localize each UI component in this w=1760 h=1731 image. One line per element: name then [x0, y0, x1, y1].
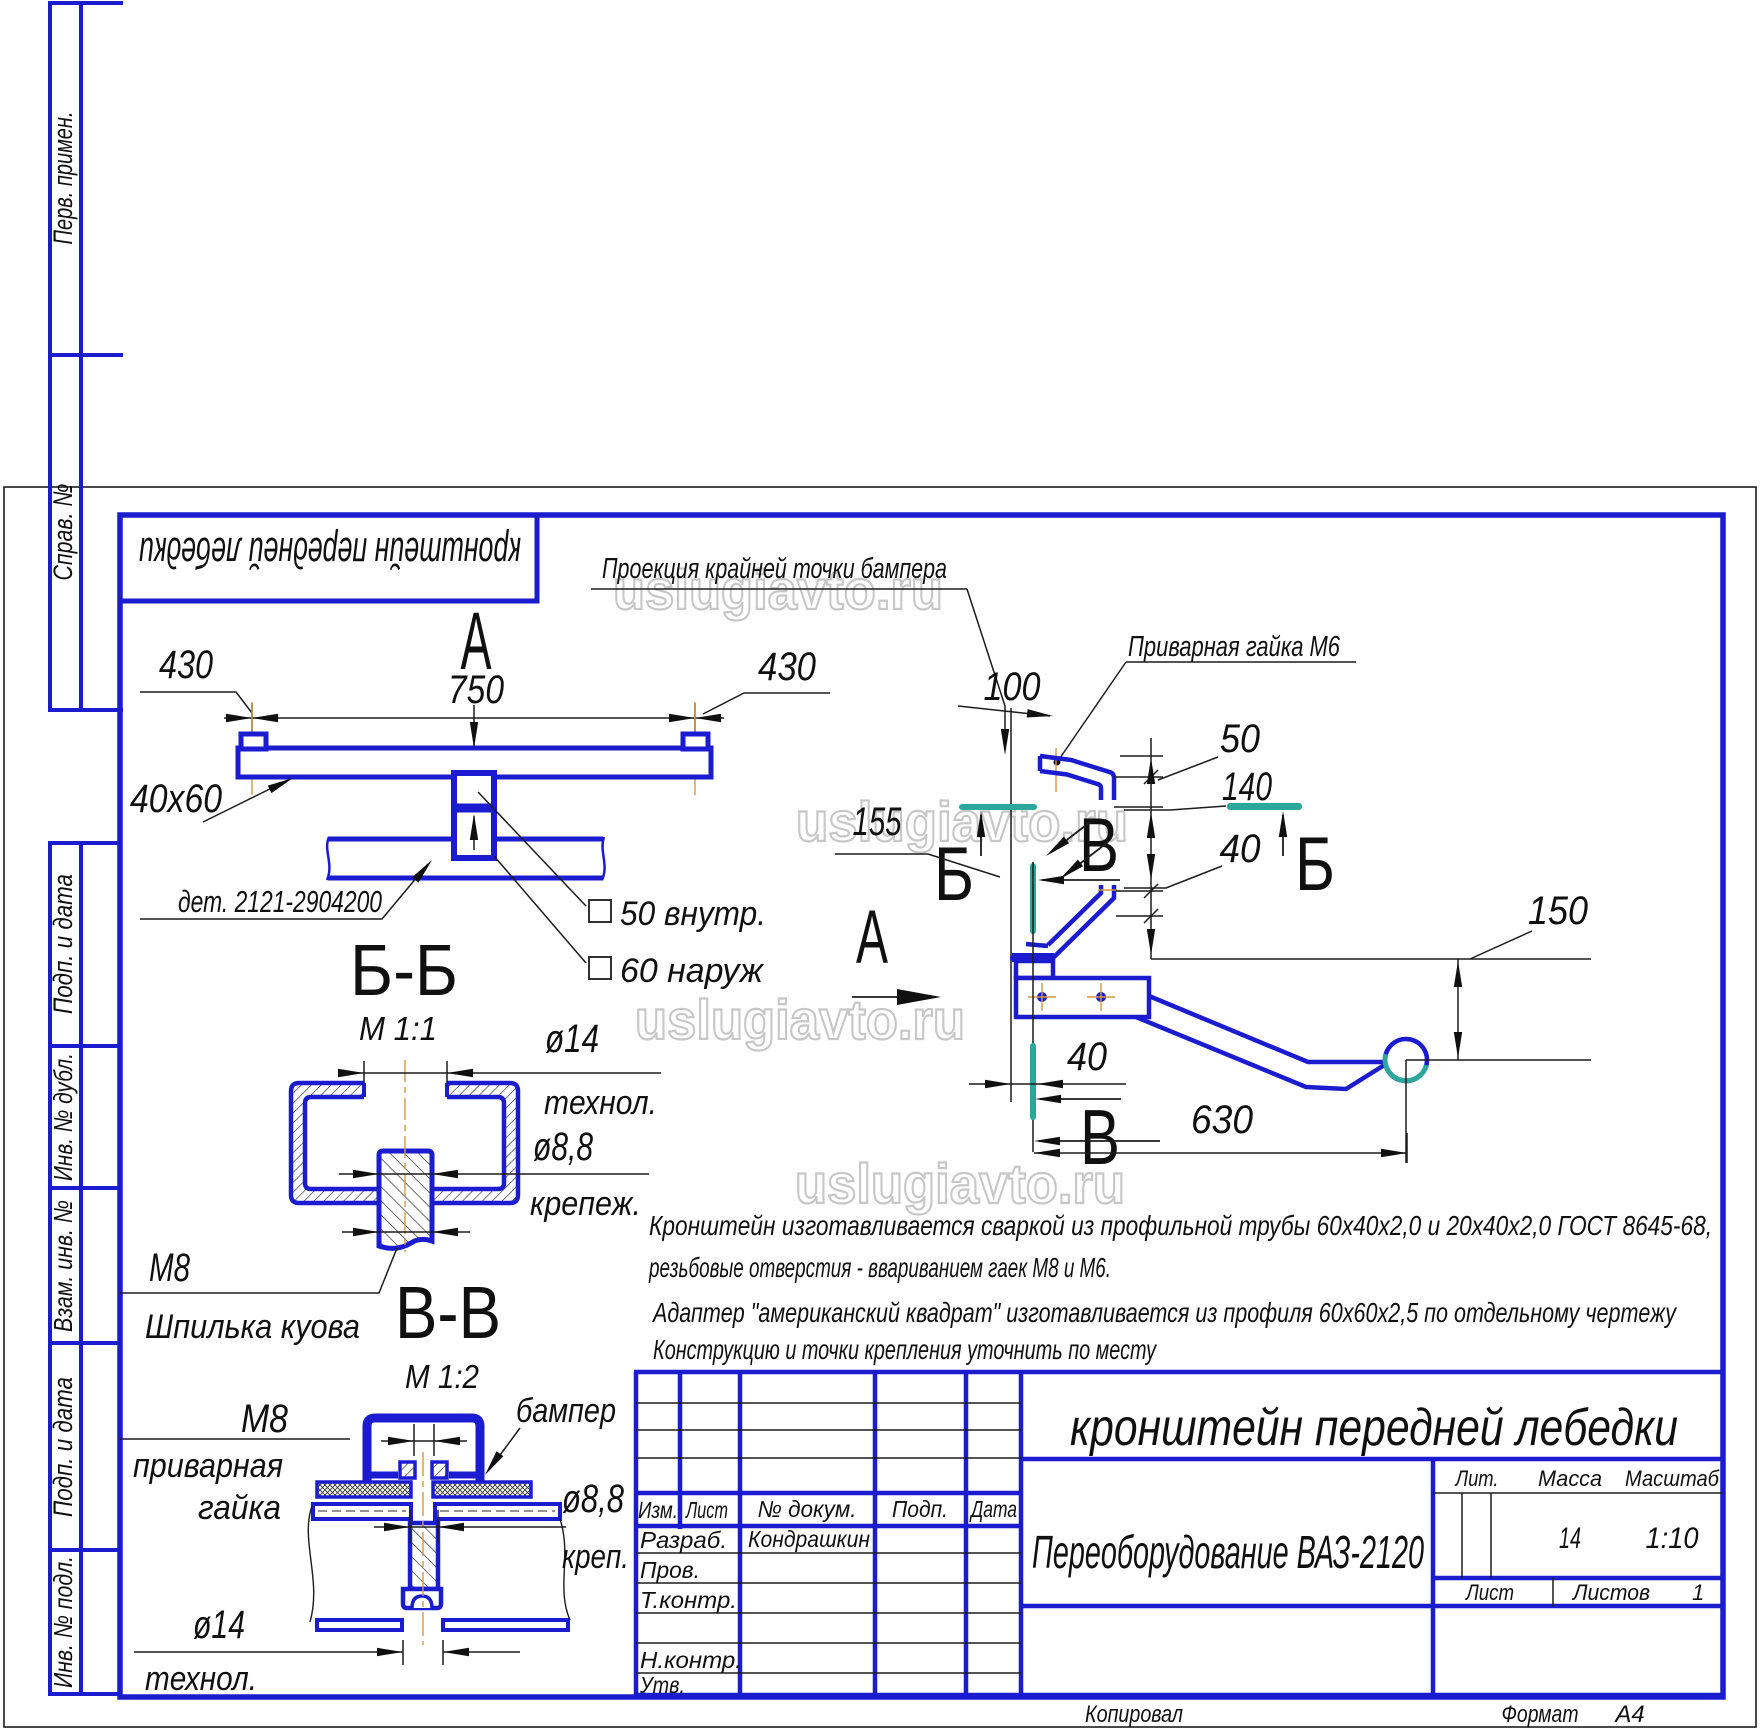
svg-text:Переоборудование ВАЗ-2120: Переоборудование ВАЗ-2120 [1032, 1526, 1424, 1578]
channel top gap [366, 1079, 445, 1100]
section line Б right (teal) [1230, 804, 1299, 810]
svg-text:Конструкцию и точки крепления: Конструкцию и точки крепления уточнить п… [653, 1334, 1157, 1365]
svg-text:Изм.: Изм. [638, 1497, 678, 1523]
break lines В-В [308, 1506, 570, 1622]
svg-text:М 1:2: М 1:2 [405, 1358, 479, 1395]
title block outline verticals [634, 1372, 639, 1697]
svg-text:Лит.: Лит. [1454, 1466, 1499, 1491]
svg-text:Инв. № дубл.: Инв. № дубл. [48, 1053, 78, 1181]
svg-text:А4: А4 [1613, 1701, 1644, 1728]
svg-text:Лист: Лист [1464, 1580, 1514, 1605]
teal arc under ring [1385, 1054, 1426, 1080]
svg-text:430: 430 [159, 643, 213, 687]
lower arrows [342, 1231, 470, 1233]
svg-text:40х60: 40х60 [130, 777, 222, 821]
dim ø14 (2) [134, 1640, 520, 1665]
svg-text:Шпилька куова: Шпилька куова [145, 1308, 360, 1346]
dim ø14 [339, 1061, 661, 1083]
svg-text:40: 40 [1220, 827, 1261, 871]
svg-text:М 1:1: М 1:1 [359, 1010, 437, 1047]
middle plates [313, 1504, 560, 1519]
dim ø8,8 (2) [374, 1510, 566, 1543]
svg-text:М8: М8 [241, 1397, 289, 1441]
extension line x1033 [1032, 862, 1034, 1152]
center arrows [473, 705, 475, 746]
svg-text:кронштейн передней лебедки: кронштейн передней лебедки [1070, 1399, 1678, 1457]
bolt holes [1028, 983, 1115, 1011]
svg-text:Подп. и дата: Подп. и дата [48, 874, 78, 1014]
svg-text:технол.: технол. [544, 1084, 657, 1122]
svg-text:ø8,8: ø8,8 [533, 1125, 594, 1169]
svg-text:1:10: 1:10 [1646, 1522, 1699, 1555]
svg-text:ø14: ø14 [545, 1017, 599, 1061]
outer thin paper border [4, 487, 1756, 1727]
svg-text:В: В [1079, 803, 1119, 888]
svg-text:Н.контр.: Н.контр. [640, 1647, 742, 1673]
hook lower strip + bend [1010, 885, 1114, 960]
М8 dim in hat [120, 1424, 467, 1456]
svg-text:Перв. примен.: Перв. примен. [48, 112, 78, 245]
svg-text:Адаптер "американский квадрат": Адаптер "американский квадрат" изготавли… [651, 1297, 1677, 1328]
C-channel hatched walls [291, 1083, 518, 1203]
svg-text:Формат: Формат [1502, 1701, 1579, 1728]
svg-text:1: 1 [1692, 1580, 1704, 1605]
svg-text:Разраб.: Разраб. [640, 1527, 727, 1553]
svg-text:Подп.: Подп. [892, 1496, 948, 1522]
svg-text:№ докум.: № докум. [758, 1496, 857, 1522]
svg-text:Приварная гайка М6: Приварная гайка М6 [1128, 631, 1341, 663]
hook upper strip [1040, 756, 1114, 800]
svg-text:В: В [1080, 1093, 1120, 1181]
svg-text:Листов: Листов [1571, 1580, 1650, 1605]
weld nuts M8 [400, 1462, 415, 1478]
svg-text:60 наруж: 60 наруж [620, 952, 765, 990]
svg-text:дет. 2121-2904200: дет. 2121-2904200 [178, 884, 382, 919]
svg-text:140: 140 [1222, 765, 1272, 809]
svg-text:Т.контр.: Т.контр. [640, 1587, 737, 1613]
svg-text:А: А [856, 895, 888, 980]
main drawing frame (thick blue) [120, 515, 1723, 1697]
svg-text:Дата: Дата [969, 1496, 1017, 1522]
svg-text:40: 40 [1067, 1035, 1107, 1079]
svg-text:50: 50 [1220, 717, 1260, 761]
centerline В-В [422, 1452, 424, 1645]
hook foot weld blob [1012, 953, 1054, 962]
svg-text:Кондрашкин: Кондрашкин [748, 1526, 870, 1552]
svg-text:14: 14 [1559, 1522, 1581, 1555]
svg-text:ø8,8: ø8,8 [562, 1477, 625, 1521]
stud with nut [410, 1523, 438, 1589]
svg-text:М8: М8 [149, 1246, 191, 1290]
svg-text:креп.: креп. [562, 1538, 629, 1576]
svg-text:Взам. инв. №: Взам. инв. № [48, 1200, 78, 1332]
hook top tab centerline [1055, 748, 1057, 792]
svg-text:50 внутр.: 50 внутр. [620, 895, 766, 933]
bumper bar (дет. 2121-2904200) [328, 839, 603, 878]
thin inner lines of title block [636, 1403, 1723, 1673]
label 60 наруж [589, 957, 611, 979]
bottom plates [317, 1620, 568, 1630]
svg-text:Пров.: Пров. [640, 1557, 700, 1583]
dim line 750 [224, 703, 724, 736]
svg-text:Б: Б [934, 832, 974, 917]
bottom strip cells [48, 842, 120, 1695]
svg-text:технол.: технол. [145, 1660, 257, 1698]
section line Б left (teal) [962, 804, 1034, 810]
svg-text:резьбовые отверстия - ввариван: резьбовые отверстия - ввариванием гаек М… [648, 1252, 1111, 1283]
svg-text:630: 630 [1191, 1098, 1253, 1142]
svg-text:В-В: В-В [395, 1271, 501, 1354]
title block horizontals [634, 1370, 1723, 1375]
bracket arm [1016, 978, 1149, 1017]
svg-text:750: 750 [448, 668, 504, 712]
svg-text:бампер: бампер [516, 1392, 616, 1430]
svg-text:150: 150 [1528, 889, 1588, 933]
foot step box [1016, 961, 1053, 978]
ring (коуш) [1385, 1039, 1427, 1081]
svg-text:гайка: гайка [198, 1489, 281, 1527]
hat profile [367, 1418, 480, 1481]
extension line x1011 [1010, 708, 1012, 1102]
svg-text:крепеж.: крепеж. [530, 1185, 641, 1223]
svg-text:Копировал: Копировал [1085, 1701, 1183, 1728]
leader 40x60 [203, 780, 288, 822]
svg-text:Б: Б [1295, 822, 1335, 907]
svg-text:Проекция крайней точки бампера: Проекция крайней точки бампера [602, 553, 947, 585]
crossbar tube 40x60 [238, 748, 711, 777]
bumper break lines [327, 837, 605, 880]
centerline [404, 1060, 406, 1252]
section line В bottom (teal vertical) [1030, 1046, 1036, 1117]
teal underline 140 [1230, 803, 1299, 809]
dim ø8,8 line [339, 1173, 649, 1175]
bolt cutout in bottom wall [382, 1186, 429, 1207]
svg-text:100: 100 [984, 665, 1041, 709]
section line В top (teal vertical) [1030, 866, 1036, 931]
centerline left tab [251, 702, 253, 795]
left end tab [241, 734, 266, 749]
svg-text:кронштейн передней лебедки: кронштейн передней лебедки [139, 528, 521, 577]
svg-text:приварная: приварная [133, 1447, 283, 1485]
svg-text:430: 430 [758, 645, 816, 689]
centerline right tab [694, 702, 696, 795]
leaders to 50/60 labels [478, 792, 586, 906]
svg-text:Подп. и дата: Подп. и дата [48, 1377, 78, 1517]
svg-text:155: 155 [853, 800, 903, 844]
dim 40 lower arrows [969, 1083, 1126, 1085]
top strip: Перв. примен. / Справ. № [48, 2, 123, 711]
orange centerline tick at section cut [1098, 889, 1117, 891]
svg-text:Утв.: Утв. [639, 1672, 685, 1698]
svg-text:Масса: Масса [1538, 1466, 1602, 1491]
label 50 внутр. [589, 900, 611, 922]
vertical dim chain x1151 [1114, 738, 1163, 959]
svg-text:Б-Б: Б-Б [350, 931, 458, 1011]
right end tab [683, 734, 708, 749]
stud (Шпилька) [379, 1151, 432, 1248]
adapter tube section 50/60 [454, 773, 494, 858]
bumper strips crosshatched [317, 1482, 411, 1497]
svg-text:ø14: ø14 [193, 1603, 245, 1647]
svg-text:uslugiavto.ru: uslugiavto.ru [795, 1152, 1125, 1215]
svg-text:Инв. № подл.: Инв. № подл. [48, 1556, 78, 1688]
diagonal arm to ring [1136, 996, 1386, 1089]
stamp box [120, 515, 537, 601]
svg-text:Лист: Лист [685, 1497, 728, 1523]
svg-text:Масштаб: Масштаб [1625, 1466, 1720, 1491]
svg-text:Справ. №: Справ. № [48, 484, 78, 581]
channel outline [291, 1083, 518, 1203]
